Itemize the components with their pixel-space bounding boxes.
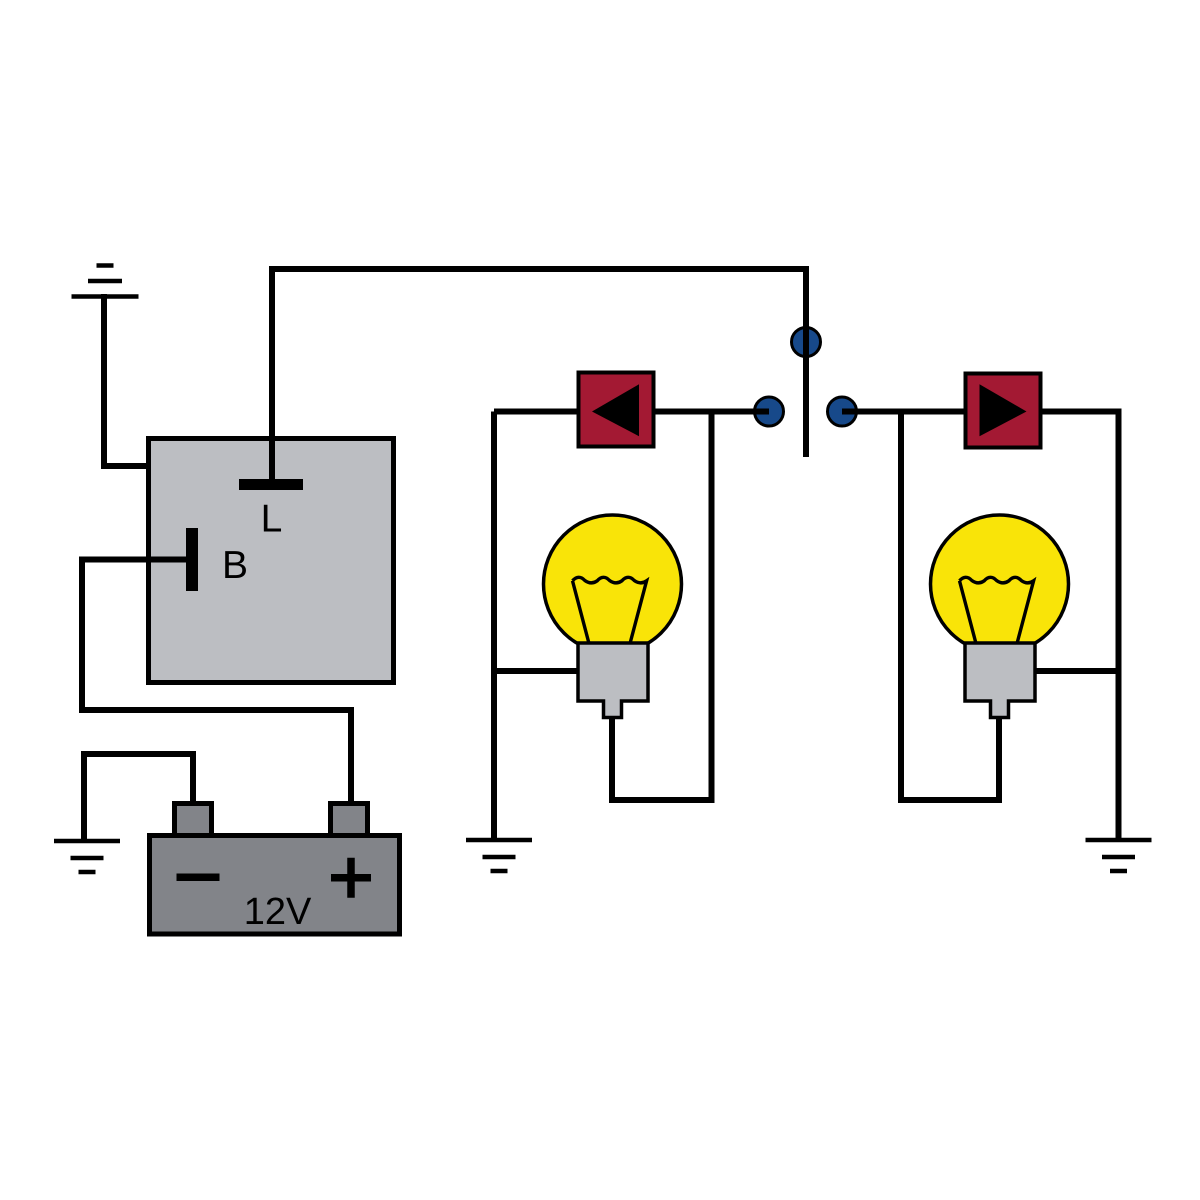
left indicator arrow (black triangle pointing left): [592, 384, 639, 436]
ground GND3 below left lamp: [466, 840, 532, 871]
battery negative post: [175, 804, 212, 836]
right bulb filament fan: [960, 577, 1034, 643]
battery positive post: [331, 804, 368, 836]
wire left bulb side contact: [494, 668, 582, 674]
right bulb base (gray): [965, 643, 1035, 718]
left bulb base (gray): [578, 643, 648, 718]
svg-text:B: B: [222, 544, 248, 587]
svg-text:L: L: [261, 498, 283, 541]
left indicator box (dark red): [579, 373, 654, 447]
battery minus symbol: [177, 874, 220, 882]
wire B terminal to battery positive post: [82, 560, 351, 806]
wire right bulb side contact: [1031, 668, 1119, 674]
switch contact right (blue): [828, 397, 857, 426]
wire battery negative post to ground GND2: [84, 754, 193, 841]
wire GND1 to flasher case left side: [104, 294, 148, 466]
switch contact top (blue, on pole): [792, 328, 821, 357]
flasher terminal B bar: [186, 528, 198, 591]
flasher relay case: [149, 439, 394, 683]
battery plus symbol: [331, 858, 371, 898]
ground GND2 below battery negative: [54, 841, 120, 872]
flasher terminal L bar: [239, 479, 303, 490]
left bulb glass (yellow circle): [544, 515, 682, 653]
wire left branch: left contact to left lamp loop: [494, 409, 769, 415]
wire switch pole (lever) vertical: [803, 266, 809, 457]
ground GND4 below right lamp: [1086, 840, 1152, 871]
switch contact left (blue): [755, 397, 784, 426]
wire flasher terminal L up and right to switch pole corner: [272, 269, 806, 482]
right indicator arrow (black triangle pointing right): [980, 384, 1027, 436]
ground GND1 top-left (inverted, points up): [72, 266, 139, 297]
wire right lamp loop left side and bottom to bulb contact: [901, 412, 999, 801]
wire right branch: right contact to right indicator and loop: [842, 412, 1119, 841]
right bulb glass (yellow circle): [931, 515, 1069, 653]
battery body: [150, 836, 400, 935]
wire pole over top contact: [803, 326, 809, 358]
right indicator box (dark red): [966, 374, 1041, 448]
wire left lamp return: T junction down, bottom, to bulb contact: [612, 412, 712, 801]
left bulb filament fan: [573, 577, 647, 643]
svg-text:12V: 12V: [244, 891, 312, 933]
wire left lamp loop left side down to ground GND3: [491, 412, 497, 841]
